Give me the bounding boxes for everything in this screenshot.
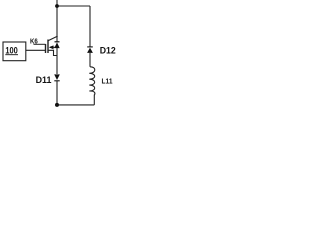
svg-text:D11: D11 xyxy=(36,75,52,85)
svg-text:D12: D12 xyxy=(100,46,116,56)
svg-text:L11: L11 xyxy=(102,77,113,86)
svg-text:K6: K6 xyxy=(30,37,38,46)
